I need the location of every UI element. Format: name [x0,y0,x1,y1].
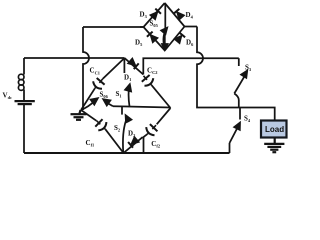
svg-text:S1: S1 [116,90,122,99]
wire: right column with hop over H1, down to load bus corner [197,27,275,121]
switch S4 top stub from output wire [239,108,241,120]
svg-text:Vdc: Vdc [3,92,13,101]
wire: top bridge left vertex tail (joins top-left horizontal) [140,26,144,28]
svg-text:D6: D6 [186,39,194,48]
diode D1 line from top vertex to node A [125,58,144,75]
capacitor C_C2 [142,75,150,82]
diode D2 symbol [132,137,139,144]
ground at center-bridge left vertex [71,110,87,120]
wire: C_f1 to bottom vertex [105,129,123,153]
Load box [261,121,287,138]
switch S3 top stub from H1 [238,58,240,66]
top bridge arm: bottom vertex to right vertex (D6) [165,27,185,51]
svg-text:D2: D2 [128,130,135,139]
switch S1 blade [128,87,131,107]
capacitor C_f2 [150,124,158,131]
wire: coil to battery top plate [23,90,25,101]
svg-text:S06: S06 [100,91,109,100]
svg-text:S4: S4 [244,115,251,124]
switch S4 blade [230,126,239,143]
capacitor C_f1 [95,119,102,127]
wire: arm right vertex to C_f2 [157,108,171,124]
wire: top bridge right vertex to right column corner [185,26,198,28]
wire: midline from S06 to right vertex [113,106,171,107]
svg-text:S2: S2 [114,124,120,133]
switch S06 arrow from midline [107,103,114,107]
svg-text:CC2: CC2 [147,67,157,76]
ground below Load [264,138,284,153]
capacitor C_C1 [97,78,105,85]
battery Vdc: long plate [15,100,35,102]
wire: C_C2 to right vertex [152,85,171,108]
inductor coil in series with Vdc source [18,74,24,90]
wire: C_f2 to node B [143,134,148,138]
switch S05 up arrow (blade) [163,30,165,50]
diode D4 symbol [177,12,184,19]
wire: arm left-vertex to C_C1 [81,88,95,110]
top bridge arm: left vertex to top vertex (D3) [144,3,165,27]
switch S4 pivot corner to bottom bus [229,143,231,153]
switch S05 down arrow [164,31,166,45]
wire: C_C1 to top vertex [103,58,125,79]
switch S2 fixed stub from midline [121,106,123,114]
wire: node A stub up to H1 corner [143,58,239,74]
wire: bottom ground bus [24,152,230,154]
switch S1 fixed stub from top vertex [123,58,125,73]
svg-text:S05: S05 [150,20,159,29]
switch S3 blade [234,74,245,93]
diode D6 symbol [175,36,182,43]
diode D5 symbol [151,35,158,42]
wire: battery column top segment [23,58,25,75]
battery Vdc: short plate [18,103,32,105]
wire: arm left vertex to C_f1 [81,110,96,121]
svg-text:Cf1: Cf1 [86,139,95,148]
diode D2 line from node B to bottom vertex [124,137,143,153]
top bridge arm: bottom vertex to left vertex (D5) [144,27,165,51]
switch S3 pivot link down to output node [234,94,239,108]
switch S05 fixed line from top vertex [164,4,166,29]
wire: node B stub down to bottom bus [143,137,145,154]
svg-text:D4: D4 [186,11,194,20]
switch S06 arrow from left vertex [81,102,94,111]
wire: left column with hop over top bus [83,27,89,110]
diode D3 symbol [151,12,158,19]
diode D1 symbol [128,59,135,66]
svg-text:D1: D1 [124,74,131,83]
svg-text:D5: D5 [135,39,143,48]
wire: battery minus down to bottom bus [23,104,25,153]
svg-text:S3: S3 [245,64,252,73]
top bridge arm: right vertex to top vertex (D4) [165,3,185,27]
svg-text:CC1: CC1 [90,67,100,76]
wire: top-left horizontal from left column to top-bridge left vertex [83,26,144,28]
svg-text:Load: Load [265,125,284,134]
svg-text:D3: D3 [140,11,148,20]
switch S2 blade [123,120,126,154]
wire: top bus from battery plus to center-bridge top vertex [24,57,125,59]
svg-text:Cf2: Cf2 [151,140,160,149]
